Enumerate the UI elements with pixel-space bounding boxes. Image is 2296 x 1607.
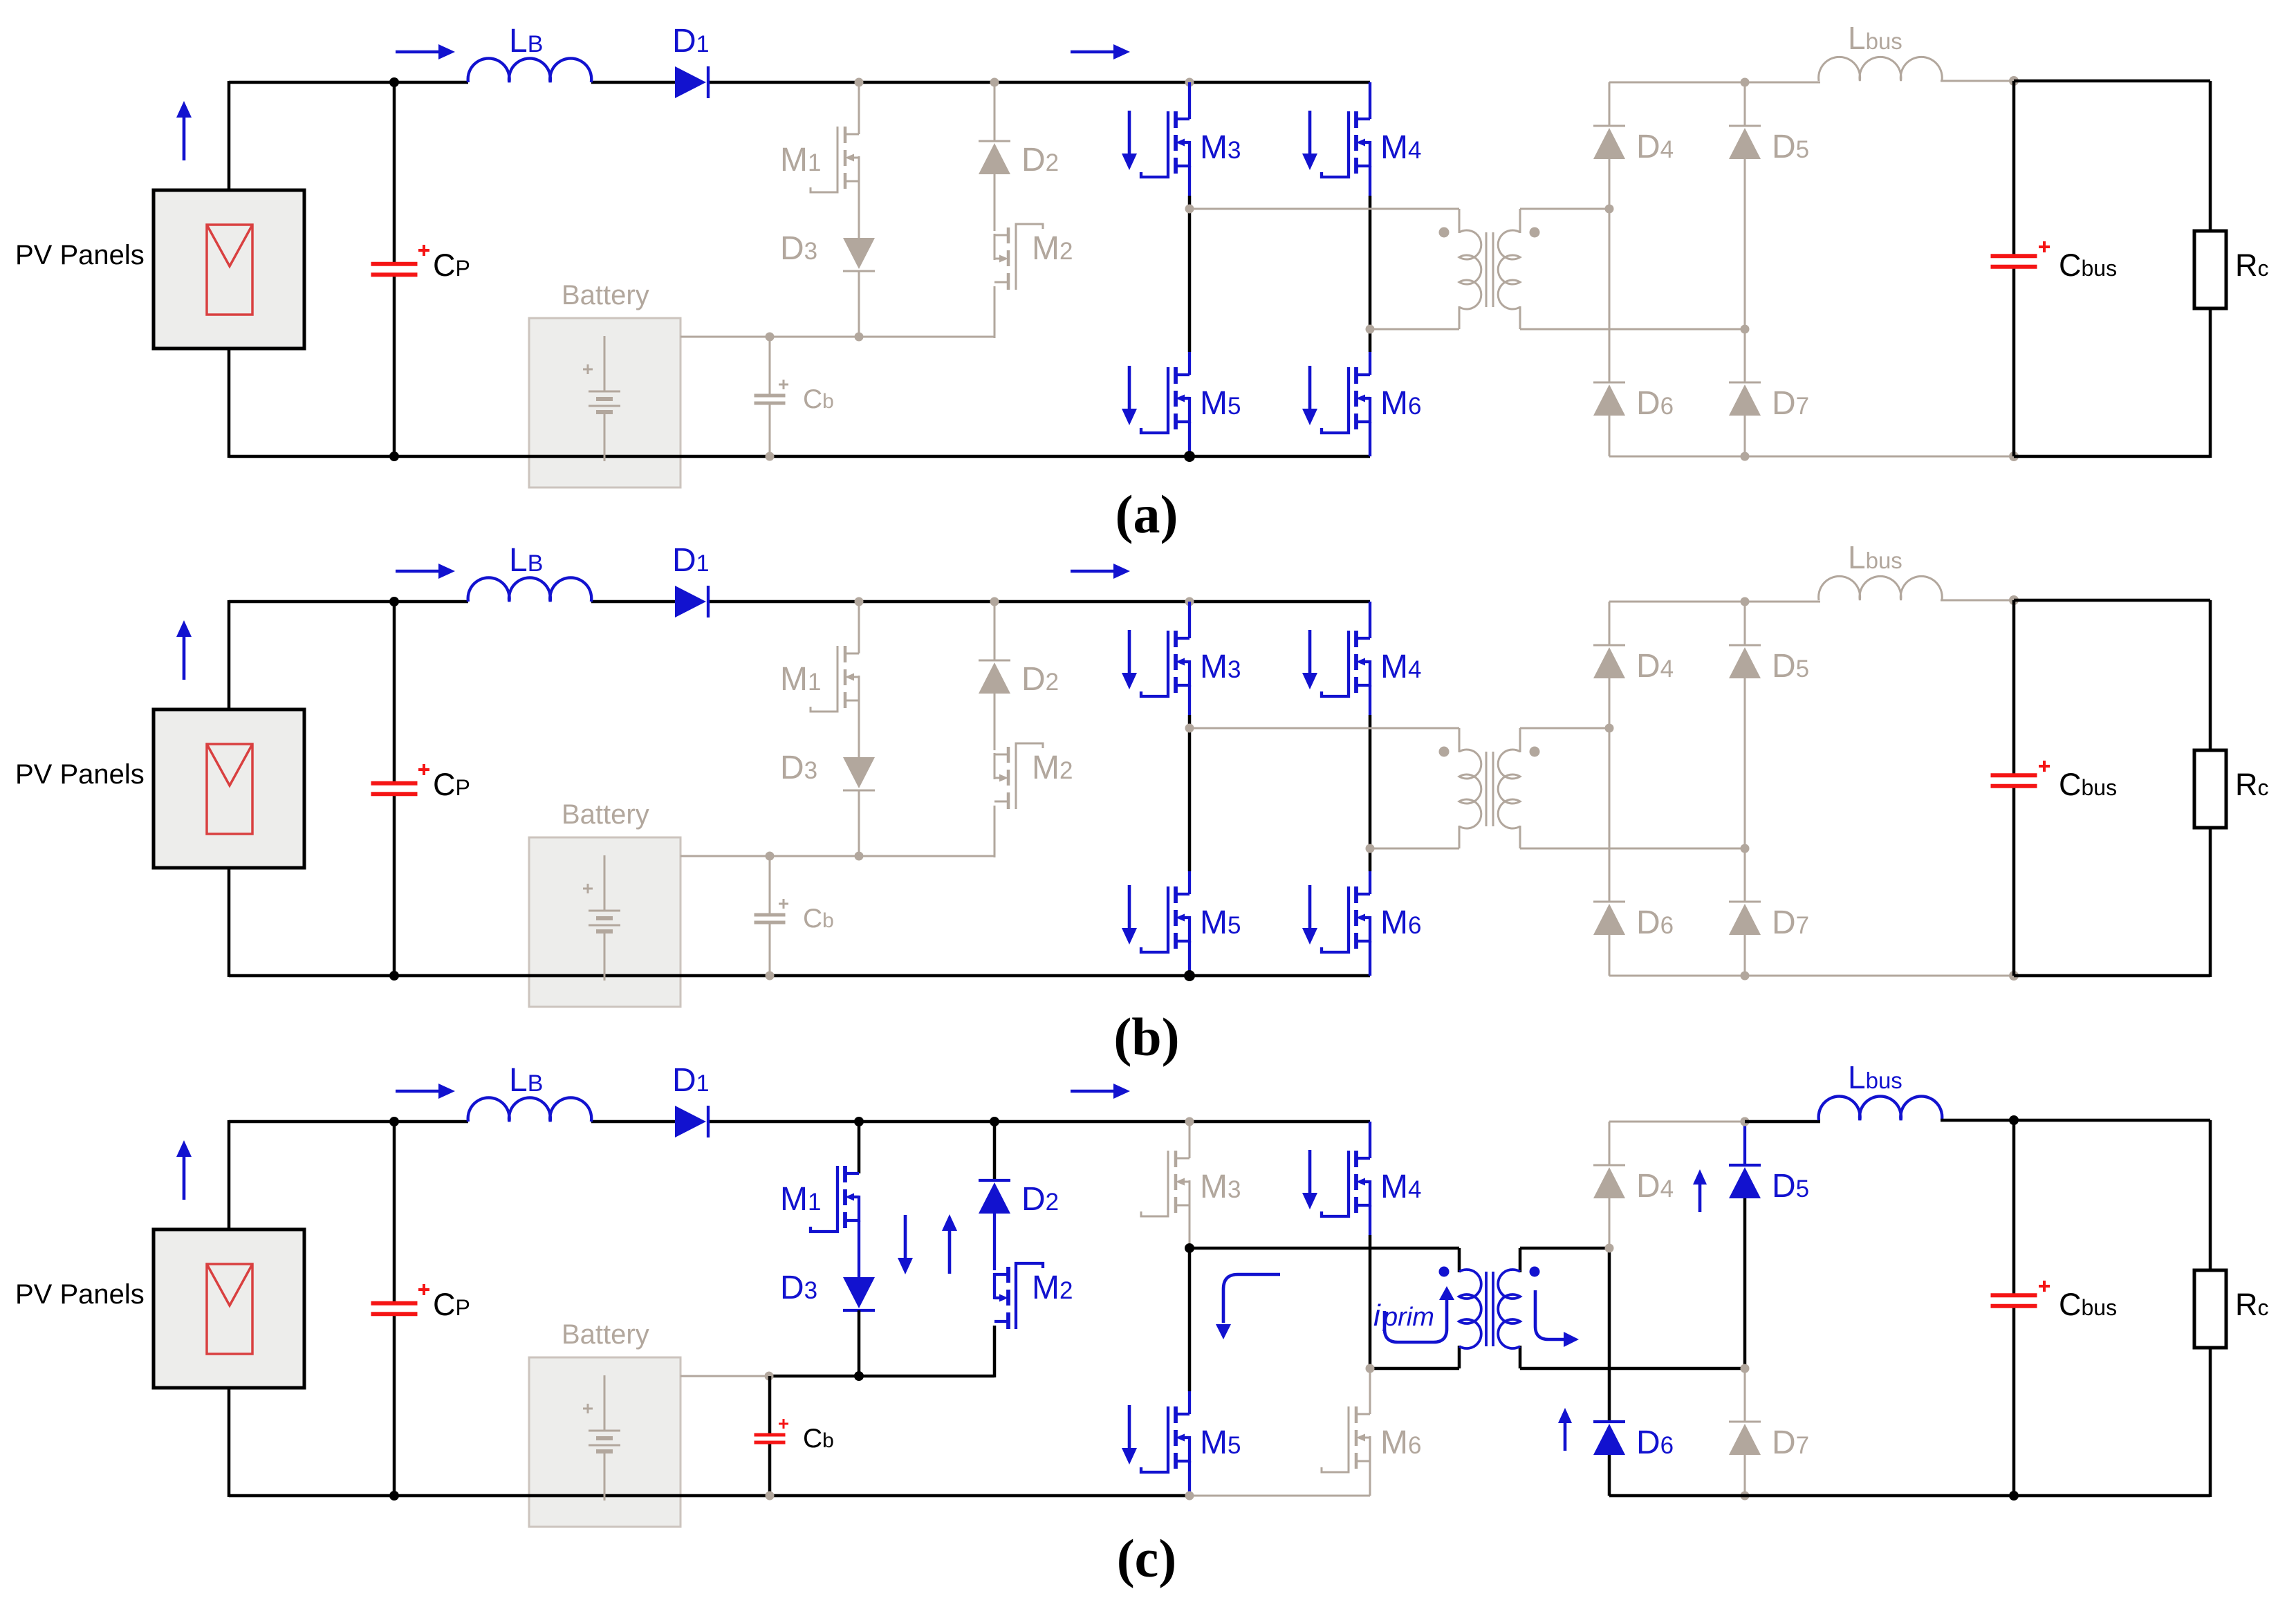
wire bottom right rail [1609,975,2014,977]
node D5 top junction [1741,78,1750,87]
wire left rail lower [228,1388,231,1497]
node Lbus input junction [1741,1117,1750,1126]
transistor M6 [1322,886,1370,952]
arrow M4 current [1302,1150,1317,1209]
node M5 source junction [1185,1492,1194,1501]
wire secondary bottom tap [1520,848,1745,850]
wire D3 cathode to battery node [858,790,860,856]
node D3 anode junction [855,852,864,861]
arrow secondary current hook [1535,1290,1565,1339]
wire D7 anode lead [1744,416,1746,456]
node D2 top junction [990,1117,999,1126]
wire primary top tap [1189,727,1459,730]
node Cp bottom junction [389,1491,399,1501]
wire bottom right rail [1609,456,2014,458]
arrow leg current loop [1223,1274,1280,1323]
diode D3 [843,238,875,271]
svg-text:PV Panels: PV Panels [15,240,145,270]
transistor M5 drain lead [1188,871,1191,894]
battery symbol [589,336,620,461]
node Cb bottom junction [766,972,775,981]
wire left rail lower [228,349,231,458]
wire M3 source lead [1189,1205,1191,1235]
PV panel source box [154,1229,304,1388]
wire top rail between LB and D1 [591,81,676,84]
svg-text:Battery: Battery [562,1319,649,1350]
wire M1 drain lead [858,602,860,653]
wire Cbus top rail to Rc [2014,80,2210,83]
node Cb bottom junction [766,452,775,461]
wire D5 cathode lead [1744,82,1746,126]
wire Cp leg lower [393,794,396,976]
PV panel source box [154,709,304,868]
wire D5 cathode lead [1743,1122,1746,1165]
svg-text:PV Panels: PV Panels [15,1279,145,1310]
wire top rail between LB and D1 [591,1120,676,1124]
diode D6 [1593,382,1625,416]
wire battery positive stub [681,1375,769,1377]
wire Cbus bottom rail to Rc [2014,974,2210,978]
arrow D6 current up [1558,1408,1572,1451]
diode D6 [1593,1422,1625,1455]
node secondary top junction [1605,1244,1614,1253]
capacitor Cbus [1991,256,2037,267]
wire Cb leg lower [769,403,771,456]
arrow M5 current [1122,885,1137,945]
wire Cp leg upper [393,602,396,783]
wire Lbus to Cbus [1941,600,2014,602]
wire top right rail [1609,601,1820,603]
node M5 source junction [1184,970,1195,981]
wire D6 anode lead [1608,1455,1611,1496]
resistor Rc [2194,750,2226,828]
node M1 top junction [854,1117,864,1126]
wire secondary bottom tap [1520,328,1745,331]
node secondary bottom junction [1741,1364,1750,1373]
wire Cbus leg lower [2012,267,2016,456]
wire transformer secondary leads [1519,1248,1522,1368]
node primary bottom junction [1366,844,1375,853]
wire Rc leg lower [2209,308,2212,458]
wire top rail left segment [229,600,468,604]
arrow M4 current [1302,630,1317,689]
wire D4-D6 leg [1609,159,1611,382]
node Cbus bottom junction [2009,1491,2019,1501]
arrow PV current up [176,101,192,160]
resistor Rc [2194,231,2226,308]
node M1 top junction [855,78,864,87]
wire M3-M5 leg upper [1189,1235,1191,1248]
wire secondary bottom tap [1520,1367,1745,1371]
transistor M3 [1141,111,1189,177]
wire M3 drain lead [1189,1122,1191,1158]
wire D4 cathode lead [1609,1122,1611,1165]
wire primary top tap [1189,1247,1459,1250]
svg-text:Battery: Battery [562,799,649,830]
wire primary bottom tap [1370,1367,1459,1371]
capacitor Cbus [1991,775,2037,786]
wire left rail upper [228,1120,231,1229]
wire D6 anode lead [1609,416,1611,456]
wire bottom rail left [229,455,1370,458]
node Cp top junction [389,77,399,87]
wire M1 drain lead [858,82,860,134]
node secondary bottom junction [1741,844,1750,853]
wire D4 cathode lead [1609,602,1611,645]
battery symbol [589,1375,620,1501]
arrow PV current up [176,620,192,680]
wire M2 to battery node [994,806,996,857]
arrow charge current up [942,1214,957,1274]
transformer primary phase dot [1439,1267,1450,1277]
node secondary bottom junction [1741,325,1750,334]
arrow input current [396,1084,455,1099]
wire D7 anode lead [1744,935,1746,976]
diode D6 [1593,902,1625,935]
capacitor Cb [754,915,786,922]
wire M5 source lead [1188,422,1191,456]
arrow M3 current [1122,111,1137,170]
wire M4-M6 leg lower [1369,329,1372,352]
transistor M5 drain lead [1188,1391,1191,1414]
node M3 drain junction [1185,597,1194,606]
wire Cb leg lower [769,922,771,976]
wire D2 anode to M2 [994,174,996,231]
node D3 anode junction [855,333,864,342]
node Cp top junction [389,597,399,606]
transistor M5 [1141,886,1189,952]
wire top rail from D1 to M4 corner [707,600,1370,604]
wire Cbus leg lower [2012,786,2016,976]
node primary top junction [1185,724,1194,733]
transformer primary phase dot [1439,227,1450,238]
wire bottom rail left [229,974,1370,978]
wire M3 drain lead [1188,602,1191,638]
wire primary top tap [1189,208,1459,210]
wire M3 source lead [1188,166,1191,196]
node M1 top junction [855,597,864,606]
wire Cp leg lower [393,275,396,456]
arrow M6 current [1302,366,1317,425]
inductor LB [468,58,592,82]
node M3 drain junction [1185,1117,1194,1126]
node Cbus bottom junction [2009,452,2019,461]
wire D5 cathode lead [1744,602,1746,645]
node Cp bottom junction [389,971,399,981]
wire Rc leg lower [2209,1348,2212,1497]
wire Cbus leg upper [2012,600,2016,775]
wire M3-M5 leg upper [1188,196,1192,209]
diode D4 [1593,645,1625,678]
wire battery positive to M2 source [681,336,994,338]
wire M3-M5 leg lower [1188,1248,1192,1391]
wire Cbus bottom rail to Rc [2014,1494,2210,1498]
node Cp top junction [389,1117,399,1126]
diode D7 [1729,902,1761,935]
battery box [529,837,681,1007]
arrow input current [396,564,455,579]
wire Cp leg upper [393,82,396,264]
diode D1 [675,586,708,617]
diode D1 [675,1106,708,1137]
diode D2 [979,660,1010,694]
svg-text:(b): (b) [1113,1007,1179,1067]
node primary top junction [1185,1243,1194,1253]
svg-text:prim: prim [1382,1303,1434,1332]
transistor M2 [994,1263,1043,1329]
PV cell symbol [207,225,252,315]
wire transformer secondary leads [1519,728,1521,848]
wire M5 source lead [1188,1461,1191,1496]
transistor M5 drain lead [1188,352,1191,375]
node D7 bottom junction [1741,1492,1750,1501]
wire M1 drain lead [858,1122,861,1173]
svg-text:(c): (c) [1117,1528,1177,1588]
wire bottom right rail [1609,1494,2014,1498]
wire left rail upper [228,81,231,190]
wire Cbus leg upper [2012,81,2016,256]
wire M4 source lead [1369,1205,1371,1235]
arrow boost output current [1071,564,1130,579]
inductor LB [468,577,592,602]
wire Rc leg upper [2209,600,2212,750]
node Cbus top junction [2009,1115,2019,1125]
wire Cb leg lower [768,1442,772,1496]
wire M4 drain lead [1369,1122,1371,1158]
transistor M6 [1322,367,1370,433]
diode D7 [1729,382,1761,416]
wire Cbus bottom rail to Rc [2014,455,2210,458]
wire M4 source lead [1369,166,1371,196]
svg-text:PV Panels: PV Panels [15,759,145,790]
arrow boost output current [1071,44,1130,59]
wire M4 drain lead [1369,602,1371,638]
wire M4 drain lead [1369,82,1371,119]
resistor Rc [2194,1270,2226,1348]
capacitor Cb [754,1435,786,1442]
diode D2 [979,1180,1010,1214]
arrow M6 current [1302,885,1317,945]
transformer T1 windings [1459,1270,1520,1348]
wire top right rail [1609,82,1820,84]
capacitor Cbus [1991,1295,2037,1306]
wire battery positive to M2 source [681,855,994,857]
wire left rail upper [228,600,231,709]
diode D1 [675,66,708,98]
node D2 top junction [990,78,999,87]
node M5 source junction [1184,451,1195,462]
wire D7 anode lead [1744,1455,1746,1496]
transformer secondary phase dot [1530,227,1540,238]
wire Rc leg lower [2209,828,2212,977]
wire M6 source lead [1369,941,1371,976]
wire D4-D6 leg [1609,1198,1611,1248]
wire transformer primary leads [1459,209,1461,329]
node secondary top junction [1605,205,1614,214]
wire Cbus top rail to Rc [2014,1119,2210,1122]
inductor Lbus [1819,1096,1943,1120]
diode D5 [1729,645,1761,678]
transistor M1 [811,646,859,712]
diode D3 [843,757,875,790]
transistor M6 [1322,1406,1370,1472]
wire Cb leg upper [769,337,771,396]
wire Cb leg upper [768,1376,772,1435]
wire D2 cathode lead [993,1122,997,1180]
wire Cb leg upper [769,856,771,915]
wire transformer primary leads [1458,1248,1461,1368]
arrow M3 current [1122,630,1137,689]
transistor M4 [1322,1151,1370,1216]
wire left rail lower [228,868,231,977]
node D2 top junction [990,597,999,606]
PV cell symbol [207,1264,252,1354]
node primary bottom junction [1366,325,1375,334]
wire Rc leg upper [2209,81,2212,231]
wire D2 anode to M2 [993,1214,996,1270]
arrow PV current up [176,1140,192,1200]
diode D2 [979,141,1010,174]
arrow primary circulating current [1385,1299,1447,1342]
node D5 top junction [1741,597,1750,606]
transistor M6 drain lead [1369,1391,1371,1414]
node Cb top junction [766,333,775,342]
transformer secondary phase dot [1530,747,1540,757]
inductor Lbus [1819,57,1943,81]
wire M3-M5 leg lower [1188,728,1192,871]
wire top rail left segment [229,81,468,84]
wire M3 drain lead [1188,82,1191,119]
wire D2 anode to M2 [994,694,996,750]
capacitor Cp [371,264,418,275]
wire M1 source to D3 [858,700,860,759]
wire top right rail D4 to D5 [1609,1121,1745,1123]
wire D5-D7 leg [1744,159,1746,382]
node Cbus bottom junction [2009,971,2019,981]
transistor M2 [994,743,1043,809]
transistor M4 [1322,631,1370,696]
node D3 anode junction [854,1371,864,1381]
wire M2 to battery node [994,286,996,338]
capacitor Cp [371,1303,418,1315]
inductor LB [468,1097,592,1122]
wire transformer primary leads [1459,728,1461,848]
transistor M1 [811,127,859,192]
wire primary bottom tap [1370,848,1459,850]
arrow input current [396,44,455,59]
arrow D5 current up [1693,1169,1707,1212]
transistor M4 [1322,111,1370,177]
node D7 bottom junction [1741,452,1750,461]
wire M3-M5 leg upper [1188,715,1192,728]
wire M3 source lead [1188,685,1191,715]
wire Cbus top rail to Rc [2014,599,2210,602]
transformer T1 windings [1459,230,1520,309]
wire M4-M6 leg [1369,715,1372,848]
battery box [529,318,681,487]
wire D4 cathode lead [1609,82,1611,126]
svg-text:i: i [1373,1299,1381,1332]
diode D5 [1729,126,1761,159]
wire D4-D6 leg [1609,678,1611,902]
arrow M5 current [1122,366,1137,425]
inductor Lbus [1819,576,1943,600]
svg-text:Battery: Battery [562,280,649,310]
arrow discharge current down [898,1215,913,1274]
node D5 top junction [1741,1117,1750,1126]
arrow boost output current [1071,1084,1130,1099]
node Cp bottom junction [389,452,399,461]
wire M4 source lead [1369,685,1371,715]
wire M2 to battery node [993,1326,997,1377]
wire M6 source lead [1369,1461,1371,1496]
wire top rail from D1 to M4 corner [707,81,1370,84]
transistor M5 [1141,1406,1189,1472]
wire M5 source lead [1188,941,1191,976]
node Cbus top junction [2009,595,2019,605]
wire Rc leg upper [2209,1120,2212,1270]
transistor M5 [1141,367,1189,433]
diode D7 [1729,1422,1761,1455]
node Cb bottom junction [766,1492,775,1501]
wire bottom rail between M5 and M6 (inactive) [1189,1495,1370,1497]
wire D2 cathode lead [994,82,996,141]
diode D5 [1729,1165,1761,1198]
battery box [529,1357,681,1527]
battery symbol [589,855,620,981]
wire D2 cathode lead [994,602,996,660]
wire Cp leg upper [393,1122,396,1303]
wire M1 source to D3 [858,181,860,239]
wire M4-M6 leg lower [1369,1368,1371,1391]
wire M4-M6 leg lower [1369,848,1372,871]
transistor M3 [1141,1151,1189,1216]
node D7 bottom junction [1741,972,1750,981]
transformer secondary phase dot [1530,1267,1540,1277]
diode D3 [843,1277,875,1310]
node primary bottom junction [1366,1364,1375,1373]
wire top rail between LB and D1 [591,600,676,604]
wire D3 cathode to battery node [858,271,860,337]
wire M1 source to D3 [858,1220,860,1279]
wire D3 cathode to battery node [858,1310,861,1376]
wire top rail from D1 to M4 corner [707,1120,1370,1124]
PV cell symbol [207,744,252,834]
arrow M5 current [1122,1405,1137,1465]
capacitor Cp [371,783,418,795]
wire secondary top tap [1520,1247,1609,1250]
wire M4-M6 leg [1369,1235,1372,1368]
transformer primary phase dot [1439,747,1450,757]
transistor M1 [811,1166,859,1232]
arrow M4 current [1302,111,1317,170]
node Cbus top junction [2009,76,2019,86]
wire Cp leg lower [393,1314,396,1496]
wire bottom rail left [229,1494,1189,1498]
wire M3-M5 leg lower [1188,209,1192,352]
transistor M6 drain lead [1369,871,1371,894]
node primary top junction [1185,205,1194,214]
svg-text:(a): (a) [1115,484,1178,544]
wire Cbus leg lower [2012,1306,2016,1496]
wire Lbus to Cbus [1941,1119,2014,1122]
diode D4 [1593,1165,1625,1198]
node battery-Cb corner [765,1372,774,1381]
wire Cb node to M2 source (active) [769,1375,994,1378]
transistor M3 [1141,631,1189,696]
wire D6 anode lead [1609,935,1611,976]
wire secondary top tap [1520,208,1609,210]
